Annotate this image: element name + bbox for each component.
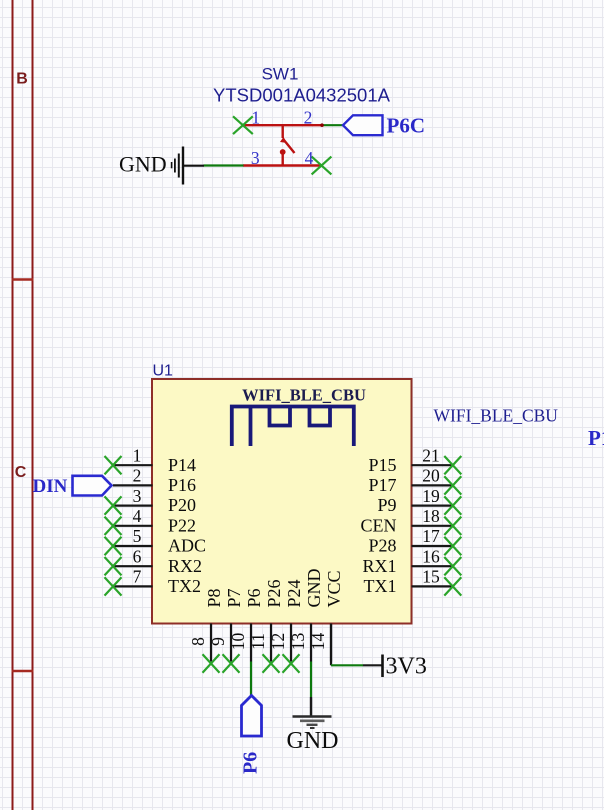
svg-text:U1: U1 — [153, 363, 174, 380]
svg-text:3: 3 — [251, 148, 260, 168]
svg-text:C: C — [15, 464, 27, 481]
svg-text:P6: P6 — [240, 752, 262, 774]
svg-text:DIN: DIN — [33, 476, 68, 497]
svg-text:13: 13 — [288, 633, 308, 651]
svg-text:4: 4 — [133, 506, 142, 526]
svg-text:WIFI_BLE_CBU: WIFI_BLE_CBU — [434, 406, 559, 426]
svg-text:P1: P1 — [588, 426, 604, 450]
svg-text:GND: GND — [287, 728, 339, 754]
svg-text:P26: P26 — [264, 579, 284, 607]
svg-text:GND: GND — [119, 152, 167, 177]
svg-text:1: 1 — [251, 108, 260, 128]
svg-text:P22: P22 — [168, 515, 196, 535]
svg-text:YTSD001A0432501A: YTSD001A0432501A — [213, 85, 391, 106]
svg-text:WIFI_BLE_CBU: WIFI_BLE_CBU — [242, 386, 366, 405]
svg-text:TX1: TX1 — [364, 576, 397, 596]
svg-text:16: 16 — [422, 546, 440, 566]
svg-text:GND: GND — [304, 569, 324, 608]
svg-text:11: 11 — [248, 633, 268, 650]
svg-text:15: 15 — [422, 567, 440, 587]
svg-text:10: 10 — [228, 633, 248, 651]
svg-text:SW1: SW1 — [262, 65, 299, 84]
svg-text:CEN: CEN — [361, 515, 397, 535]
svg-text:19: 19 — [422, 486, 440, 506]
svg-text:P28: P28 — [368, 536, 396, 556]
svg-text:P16: P16 — [168, 475, 196, 495]
svg-text:ADC: ADC — [168, 536, 206, 556]
svg-text:7: 7 — [133, 567, 142, 587]
svg-text:18: 18 — [422, 506, 440, 526]
svg-text:3V3: 3V3 — [386, 654, 427, 680]
svg-text:1: 1 — [133, 445, 142, 465]
svg-text:P6: P6 — [244, 588, 264, 607]
svg-text:RX2: RX2 — [168, 556, 202, 576]
svg-text:P6C: P6C — [387, 114, 426, 138]
svg-text:3: 3 — [133, 486, 142, 506]
svg-text:P17: P17 — [368, 475, 396, 495]
svg-text:5: 5 — [133, 526, 142, 546]
svg-text:12: 12 — [268, 633, 288, 651]
svg-text:P9: P9 — [377, 495, 396, 515]
svg-text:RX1: RX1 — [362, 556, 396, 576]
svg-text:TX2: TX2 — [168, 576, 201, 596]
svg-text:17: 17 — [422, 526, 440, 546]
svg-text:2: 2 — [133, 466, 142, 486]
svg-text:P7: P7 — [224, 588, 244, 607]
svg-text:B: B — [16, 71, 28, 88]
svg-text:VCC: VCC — [324, 570, 344, 607]
svg-text:P15: P15 — [368, 455, 396, 475]
svg-text:2: 2 — [304, 108, 313, 128]
svg-text:P24: P24 — [284, 579, 304, 607]
svg-text:14: 14 — [308, 633, 328, 651]
svg-text:P14: P14 — [168, 455, 196, 475]
svg-text:21: 21 — [422, 445, 440, 465]
svg-text:6: 6 — [133, 546, 142, 566]
svg-text:4: 4 — [305, 148, 314, 168]
svg-text:P8: P8 — [204, 588, 224, 607]
svg-text:8: 8 — [188, 637, 208, 646]
svg-text:P20: P20 — [168, 495, 196, 515]
svg-text:20: 20 — [422, 466, 440, 486]
svg-text:9: 9 — [208, 637, 228, 646]
